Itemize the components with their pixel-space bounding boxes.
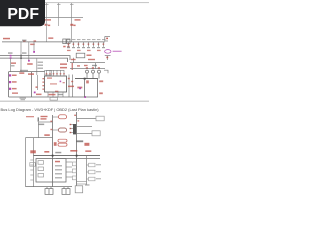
IC bar (filled): [73, 124, 76, 134]
junction labels on bus (red): [23, 40, 36, 41]
part marks (red): [84, 143, 89, 146]
IC U2 small box: [76, 53, 85, 58]
bus labels (dark): [8, 52, 27, 53]
component row labels above (dark): [67, 39, 106, 40]
label right of bend (dark): [22, 40, 27, 41]
pin mark (red): [106, 57, 108, 59]
wire: vertical x84.5: [84, 79, 86, 97]
faint mark right: [85, 184, 90, 186]
wire: spine x76.5: [76, 112, 78, 186]
module M2 big box: [36, 159, 66, 182]
net labels SDA SCL (red): [71, 59, 95, 67]
connector box bottom-left: [75, 186, 83, 193]
wire: spine x52.5: [52, 115, 54, 187]
part marks (red): [54, 142, 57, 146]
wire: verticals right of MCU: [69, 75, 73, 98]
wire: upper horizontal rail: [44, 17, 83, 19]
junction dots: [52, 155, 78, 157]
net flags NB3 NB4: [58, 139, 67, 146]
module pin labels (red): [12, 75, 17, 90]
box B1: [96, 116, 104, 121]
net labels above rails (red): [44, 150, 91, 153]
wire: stub x73.5: [73, 58, 75, 63]
U2 ref label (red): [87, 55, 92, 57]
bus rail A page2: [34, 155, 101, 157]
wire: vertical x37.5: [37, 75, 39, 90]
wire: main horizontal bus: [2, 41, 105, 43]
MCU inner specks: [47, 77, 52, 78]
component mark above stub (dark): [38, 117, 39, 121]
component row drops on bus: [69, 42, 104, 47]
net flag text (magenta): [113, 51, 122, 52]
wire: top vertical stub 3: [70, 3, 74, 42]
pin specks on spines (red): [50, 115, 79, 131]
ladder box: [30, 163, 36, 167]
label VCC (red): [3, 38, 10, 40]
node magenta junctions on rails: [10, 55, 12, 57]
wire: vertical drop at x29: [28, 42, 30, 61]
label below module (dark): [20, 98, 27, 101]
node magenta at x34: [33, 51, 35, 53]
wire: vertical x97.5: [97, 79, 99, 97]
wire: vertical x36.8: [36, 58, 38, 75]
wire: hline y137.6: [26, 137, 53, 139]
GND label (dark): [76, 140, 83, 142]
label above module (dark): [20, 70, 28, 71]
ladder ticks: [30, 160, 33, 180]
node magenta at x29: [28, 60, 30, 62]
node magenta: [79, 87, 81, 89]
header pin right edge: [105, 36, 110, 41]
MCU top pin wires: [47, 70, 65, 76]
double bus rails left: [0, 56, 70, 60]
pin specks above circles (red): [86, 67, 100, 68]
wire: hline y133.6 to box: [77, 133, 93, 135]
label dark under MCU: [58, 94, 64, 95]
wire: hline y68.6: [70, 68, 105, 70]
left stubs: [70, 125, 73, 133]
page 1 top border: [0, 2, 149, 3]
part speck (grey): [11, 65, 15, 66]
svg-text:PDF: PDF: [7, 6, 39, 23]
svg-text:Bus Log Diagram - VW3+KDF |: Bus Log Diagram - VW3+KDF | OBD2 (Last P…: [1, 107, 100, 112]
junction dot: [84, 78, 86, 80]
node magenta near module: [34, 92, 36, 94]
part marks right column (red): [77, 80, 103, 94]
wire: top vertical stub 2: [57, 3, 61, 18]
label inside module bottom (red): [12, 92, 18, 94]
crystal Y1: [45, 187, 53, 195]
ladder part cluster (red): [30, 150, 36, 153]
wire: left frame vertical x25.5: [25, 138, 27, 187]
ground rail bottom: [9, 96, 98, 98]
net label (red): [27, 63, 33, 65]
net label (red): [19, 72, 24, 74]
net label on stub (red): [48, 37, 53, 39]
wire: vertical x21: [20, 42, 22, 72]
pin 1 mark (red): [106, 38, 108, 40]
capacitor column left of spine: [72, 162, 76, 180]
net flag oval (magenta): [105, 50, 111, 54]
box B2: [92, 131, 100, 136]
transistor circles row: [86, 70, 101, 79]
label inside module (red): [28, 73, 34, 75]
wire: hline y126.6: [77, 126, 93, 128]
connector J1 pin marks (red): [63, 46, 69, 48]
MCU bottom pin wires: [48, 92, 63, 97]
side boxes column: [89, 163, 96, 181]
wire: vertical x38.5: [38, 122, 40, 138]
wire: top vertical stub 1: [45, 3, 49, 18]
node T stub: [105, 56, 111, 60]
MCU U1 box: [45, 76, 67, 92]
page 1 bottom border: [0, 101, 149, 102]
wire: hline y62.6: [70, 62, 105, 64]
label above rails (dark): [55, 152, 61, 154]
inner label (red): [55, 161, 60, 163]
MCU inner label (red): [50, 83, 57, 84]
MCU top pin marks (red): [46, 73, 65, 74]
stub pin marks (red): [70, 124, 72, 133]
module box left edge: [9, 72, 45, 97]
part cluster on wire (red): [11, 62, 16, 64]
wire: joins at bottom: [77, 182, 87, 185]
wire: stub x95.5: [95, 63, 97, 69]
bus rail B page2: [56, 158, 100, 160]
wire: stub to left y122: [39, 121, 53, 123]
net label at drop (red): [30, 44, 35, 46]
wire: hline y78.6: [75, 78, 98, 80]
wire: vertical rail-to-module x10.5: [10, 58, 12, 72]
net labels top (red): [26, 116, 48, 120]
wire: hline y118.6 to box: [77, 118, 97, 120]
connector J1 (two small boxes): [63, 39, 70, 44]
crystal Y2: [62, 187, 70, 195]
net labels on upper rail (red): [45, 19, 81, 26]
MCU left pin marks: [42, 78, 44, 90]
pin specks right of MCU (red): [68, 78, 70, 79]
net label between verticals (red): [68, 86, 74, 88]
net flag NB1 (red round): [53, 115, 67, 119]
resistor pack above MCU: [45, 71, 52, 76]
pin label (dark): [92, 65, 97, 66]
small box below rail: [50, 97, 58, 100]
net label (red): [44, 134, 50, 136]
wire: ladder vertical x33.5: [33, 138, 35, 187]
part labels (red): [60, 63, 73, 70]
component bodies (grey): [67, 47, 105, 48]
pin text rows (dark): [38, 62, 44, 69]
inner boxes: [38, 161, 44, 177]
wire: stub drops under rail: [47, 18, 59, 42]
bottom rail page2: [26, 186, 73, 188]
corner symbol at x106: [104, 70, 108, 73]
module pin squares (magenta): [9, 74, 11, 90]
labels under MCU (red): [36, 91, 58, 96]
label under stub (dark): [38, 124, 44, 126]
PDF badge: [0, 0, 45, 26]
wire: vertical drop at x34: [33, 42, 35, 52]
node magenta on rail: [84, 96, 86, 98]
inner pin rows (dark): [55, 165, 62, 178]
pin speck (red): [36, 86, 38, 88]
junction dots on rails at x20.2: [20, 55, 22, 59]
net flag NB2: [53, 128, 67, 132]
component row marks (red): [67, 43, 104, 51]
wire: vertical x86.5: [86, 156, 88, 185]
value labels (faint): [96, 164, 101, 179]
right stubs from module: [66, 162, 72, 177]
